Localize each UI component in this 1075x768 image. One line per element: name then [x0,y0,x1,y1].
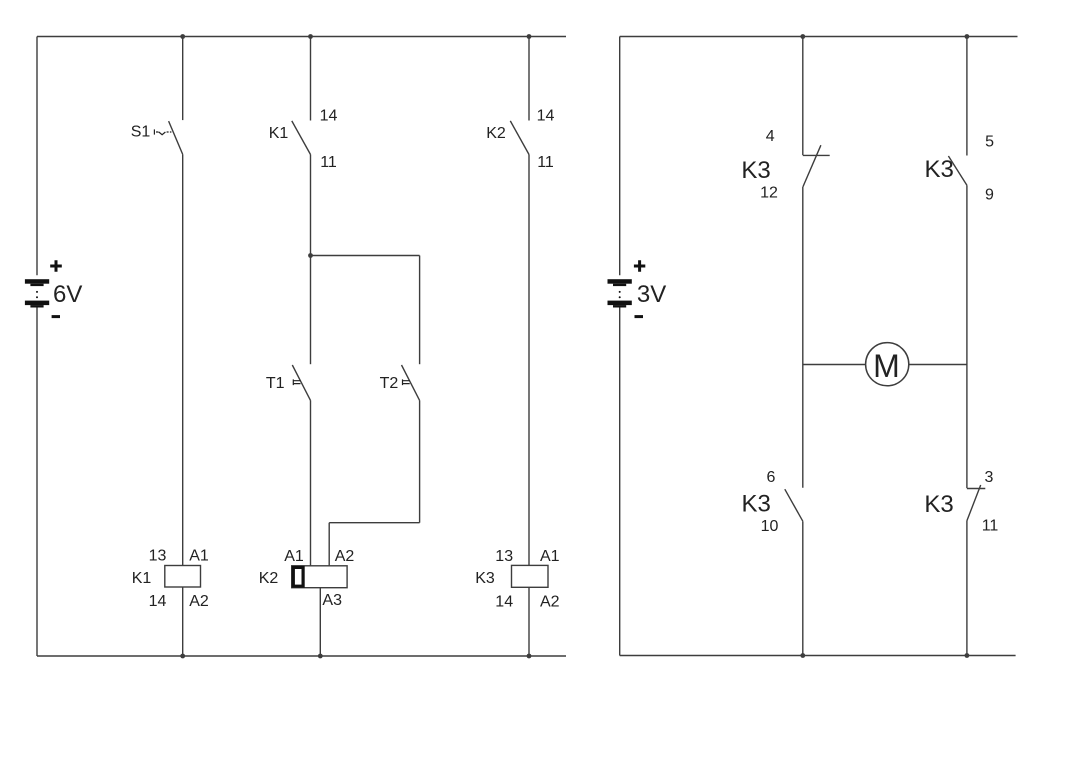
svg-text:K1: K1 [269,125,289,142]
svg-text:K2: K2 [486,125,506,142]
svg-text:M: M [873,348,900,384]
svg-text:A2: A2 [540,594,560,611]
svg-text:9: 9 [985,187,994,204]
svg-text:13: 13 [495,548,513,565]
svg-text:K3: K3 [924,491,953,518]
svg-text:A1: A1 [284,548,304,565]
svg-text:T1: T1 [266,375,285,392]
svg-text:A1: A1 [189,548,209,565]
svg-text:A1: A1 [540,548,560,565]
svg-text:12: 12 [760,185,778,202]
svg-text:6: 6 [767,469,776,486]
svg-text:K3: K3 [925,156,954,183]
svg-text:3V: 3V [637,281,666,308]
svg-text:K3: K3 [475,570,495,587]
svg-text:4: 4 [766,128,775,145]
svg-text:14: 14 [537,107,555,124]
svg-text:11: 11 [320,154,337,171]
svg-text:K2: K2 [259,570,279,587]
svg-text:3: 3 [984,469,993,486]
svg-text:A2: A2 [335,548,355,565]
svg-text:K3: K3 [741,157,770,184]
svg-text:K3: K3 [742,491,771,518]
svg-text:6V: 6V [53,281,82,308]
svg-text:13: 13 [149,548,167,565]
svg-text:11: 11 [982,518,999,535]
svg-text:14: 14 [495,594,513,611]
svg-text:11: 11 [537,154,554,171]
svg-text:T2: T2 [380,375,399,392]
svg-text:S1: S1 [131,123,151,140]
svg-text:A3: A3 [322,592,342,609]
svg-text:10: 10 [761,518,779,535]
svg-text:5: 5 [985,134,994,151]
svg-text:A2: A2 [189,593,209,610]
svg-text:K1: K1 [132,570,152,587]
svg-text:14: 14 [320,107,338,124]
svg-text:14: 14 [149,593,167,610]
